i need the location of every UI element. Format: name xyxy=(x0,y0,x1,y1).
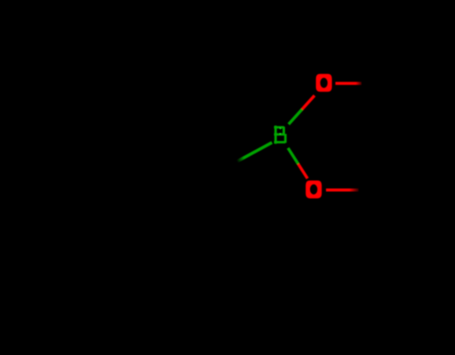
wire: bond B-O upper (green half / red half) xyxy=(289,96,315,125)
atom label O (lower oxygen) xyxy=(306,180,322,198)
wire: bond O(upper)-C half-red fading right xyxy=(335,82,361,85)
bright artifact dots inside B xyxy=(280,128,282,130)
atom label O (upper oxygen) xyxy=(316,74,332,92)
wire: bond O(lower)-C half-red fading right xyxy=(326,189,359,192)
atom label B (boron) xyxy=(275,127,285,143)
wire: bond B-O lower (green half / red half) xyxy=(288,148,308,179)
wire: bond B-C (methine) half-green fading to black xyxy=(237,143,272,162)
